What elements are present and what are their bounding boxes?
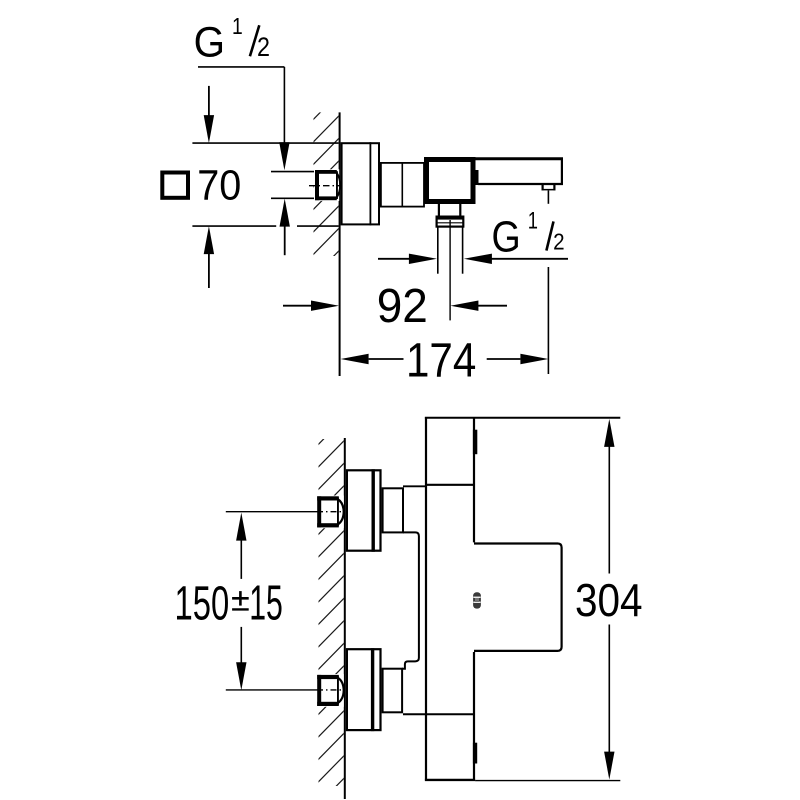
housing edge between unions bbox=[402, 532, 419, 668]
lower shaft (front view) bbox=[383, 669, 403, 713]
valve body (top view) bbox=[427, 160, 474, 202]
inlet centerline dash-dot bbox=[309, 185, 341, 187]
label G 1/2 (inlet) bbox=[194, 13, 270, 65]
lower nut centerline bbox=[226, 689, 346, 691]
supply pipe lines behind wall bbox=[271, 172, 315, 199]
body top edge + 304 extension bbox=[425, 417, 620, 419]
wall line (top view) bbox=[339, 112, 341, 376]
wall hatching (front view) bbox=[308, 408, 354, 800]
aerator nub bbox=[542, 185, 556, 191]
joint bar body/spout bbox=[476, 170, 479, 185]
body slab left edge bbox=[425, 417, 427, 781]
square symbol bbox=[162, 173, 188, 198]
outlet thread dimension arrows bbox=[378, 254, 568, 264]
escutcheon (top view) bbox=[342, 142, 379, 225]
svg-text:70: 70 bbox=[197, 161, 241, 209]
lower escutcheon (front view) bbox=[347, 648, 381, 731]
spout end extension line bbox=[547, 191, 549, 375]
70 dimension arrows bbox=[204, 86, 214, 288]
cap joint line top bbox=[403, 485, 474, 487]
inlet union nut (top view) bbox=[314, 169, 340, 201]
G 1/2 leader (inlet) bbox=[198, 67, 290, 255]
outlet pipe centerline bbox=[449, 220, 451, 320]
extension line escutcheon top bbox=[192, 142, 338, 144]
outlet collar nut bbox=[437, 217, 464, 227]
shaft (top view) bbox=[381, 162, 424, 208]
upper shaft (front view) bbox=[383, 488, 403, 532]
upper nut centerline bbox=[226, 511, 346, 513]
svg-text:2: 2 bbox=[257, 32, 270, 62]
dimension 174 bbox=[341, 333, 549, 387]
svg-text:174: 174 bbox=[406, 333, 476, 387]
svg-text:2: 2 bbox=[553, 229, 564, 255]
body slab right edge bbox=[473, 417, 475, 781]
lower wall nut (front view) bbox=[316, 674, 344, 707]
svg-text:1: 1 bbox=[232, 13, 243, 39]
body bottom edge + 304 extension bbox=[425, 779, 620, 782]
upper wall nut (front view) bbox=[316, 496, 344, 529]
label G 1/2 (outlet) bbox=[492, 207, 565, 261]
wall hatching (top view) bbox=[303, 83, 349, 310]
upper escutcheon (front view) bbox=[347, 469, 381, 552]
label 70 bbox=[197, 161, 241, 209]
svg-text:1: 1 bbox=[528, 207, 538, 234]
handle notch top bbox=[473, 430, 477, 455]
svg-text:G: G bbox=[492, 212, 521, 261]
svg-text:G: G bbox=[194, 17, 225, 65]
extension line escutcheon bottom bbox=[192, 225, 338, 227]
dimension 304 bbox=[575, 419, 643, 780]
spout housing block (front view) bbox=[474, 544, 562, 651]
svg-text:304: 304 bbox=[575, 576, 643, 627]
shower outlet pipe bbox=[438, 227, 463, 274]
dimension 92 bbox=[283, 279, 507, 332]
svg-text:15: 15 bbox=[249, 575, 283, 630]
GROHE emblem bbox=[473, 592, 481, 608]
handle notch bottom bbox=[473, 743, 477, 764]
svg-text:150: 150 bbox=[175, 576, 230, 630]
outlet neck below valve body bbox=[439, 204, 460, 217]
wall line (front view) bbox=[344, 438, 346, 799]
spout bbox=[476, 158, 564, 185]
dimension 150±15 bbox=[175, 513, 283, 691]
svg-text:92: 92 bbox=[377, 279, 428, 332]
cap joint line bottom bbox=[403, 713, 474, 715]
